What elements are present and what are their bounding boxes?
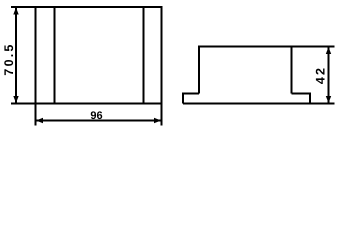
side view: body right edge xyxy=(291,46,293,94)
dimension 42: bottom arrowhead xyxy=(326,96,331,103)
dimension 70.5: bottom arrowhead xyxy=(13,96,18,103)
side view: flange top left segment xyxy=(183,93,199,95)
side view: bottom edge (with right extension for 42 dim) xyxy=(183,103,335,105)
front view: left edge (extends down as 96-dim extension line) xyxy=(35,6,37,126)
side view: flange left edge xyxy=(182,93,184,104)
dimension 70.5: top arrowhead xyxy=(13,8,18,15)
dimension 96: left arrowhead xyxy=(36,118,43,123)
dimension 96: right arrowhead xyxy=(154,118,161,123)
dimension 70.5: vertical dimension line xyxy=(15,7,17,104)
side view: top edge (with right extension for 42 dim) xyxy=(199,46,335,48)
svg-text:42: 42 xyxy=(313,66,327,84)
dimension 42: vertical dimension line xyxy=(328,47,330,104)
front view: top edge (with left extension for 70.5 dim) xyxy=(11,6,163,8)
side view: body left edge xyxy=(198,46,200,94)
front view: right edge (extends down as 96-dim extension line) xyxy=(161,6,163,126)
side view: flange top right segment xyxy=(292,93,311,95)
front view: inner vertical line right xyxy=(143,7,145,104)
dimension 42: top arrowhead xyxy=(326,47,331,54)
front view: bottom edge (with left extension for 70.5 dim) xyxy=(11,103,163,105)
svg-text:70.5: 70.5 xyxy=(2,42,16,75)
dimension 96: horizontal dimension line xyxy=(36,120,162,122)
front view: inner vertical line left xyxy=(54,7,56,104)
svg-text:96: 96 xyxy=(90,110,102,122)
side view: flange right edge xyxy=(309,93,311,104)
